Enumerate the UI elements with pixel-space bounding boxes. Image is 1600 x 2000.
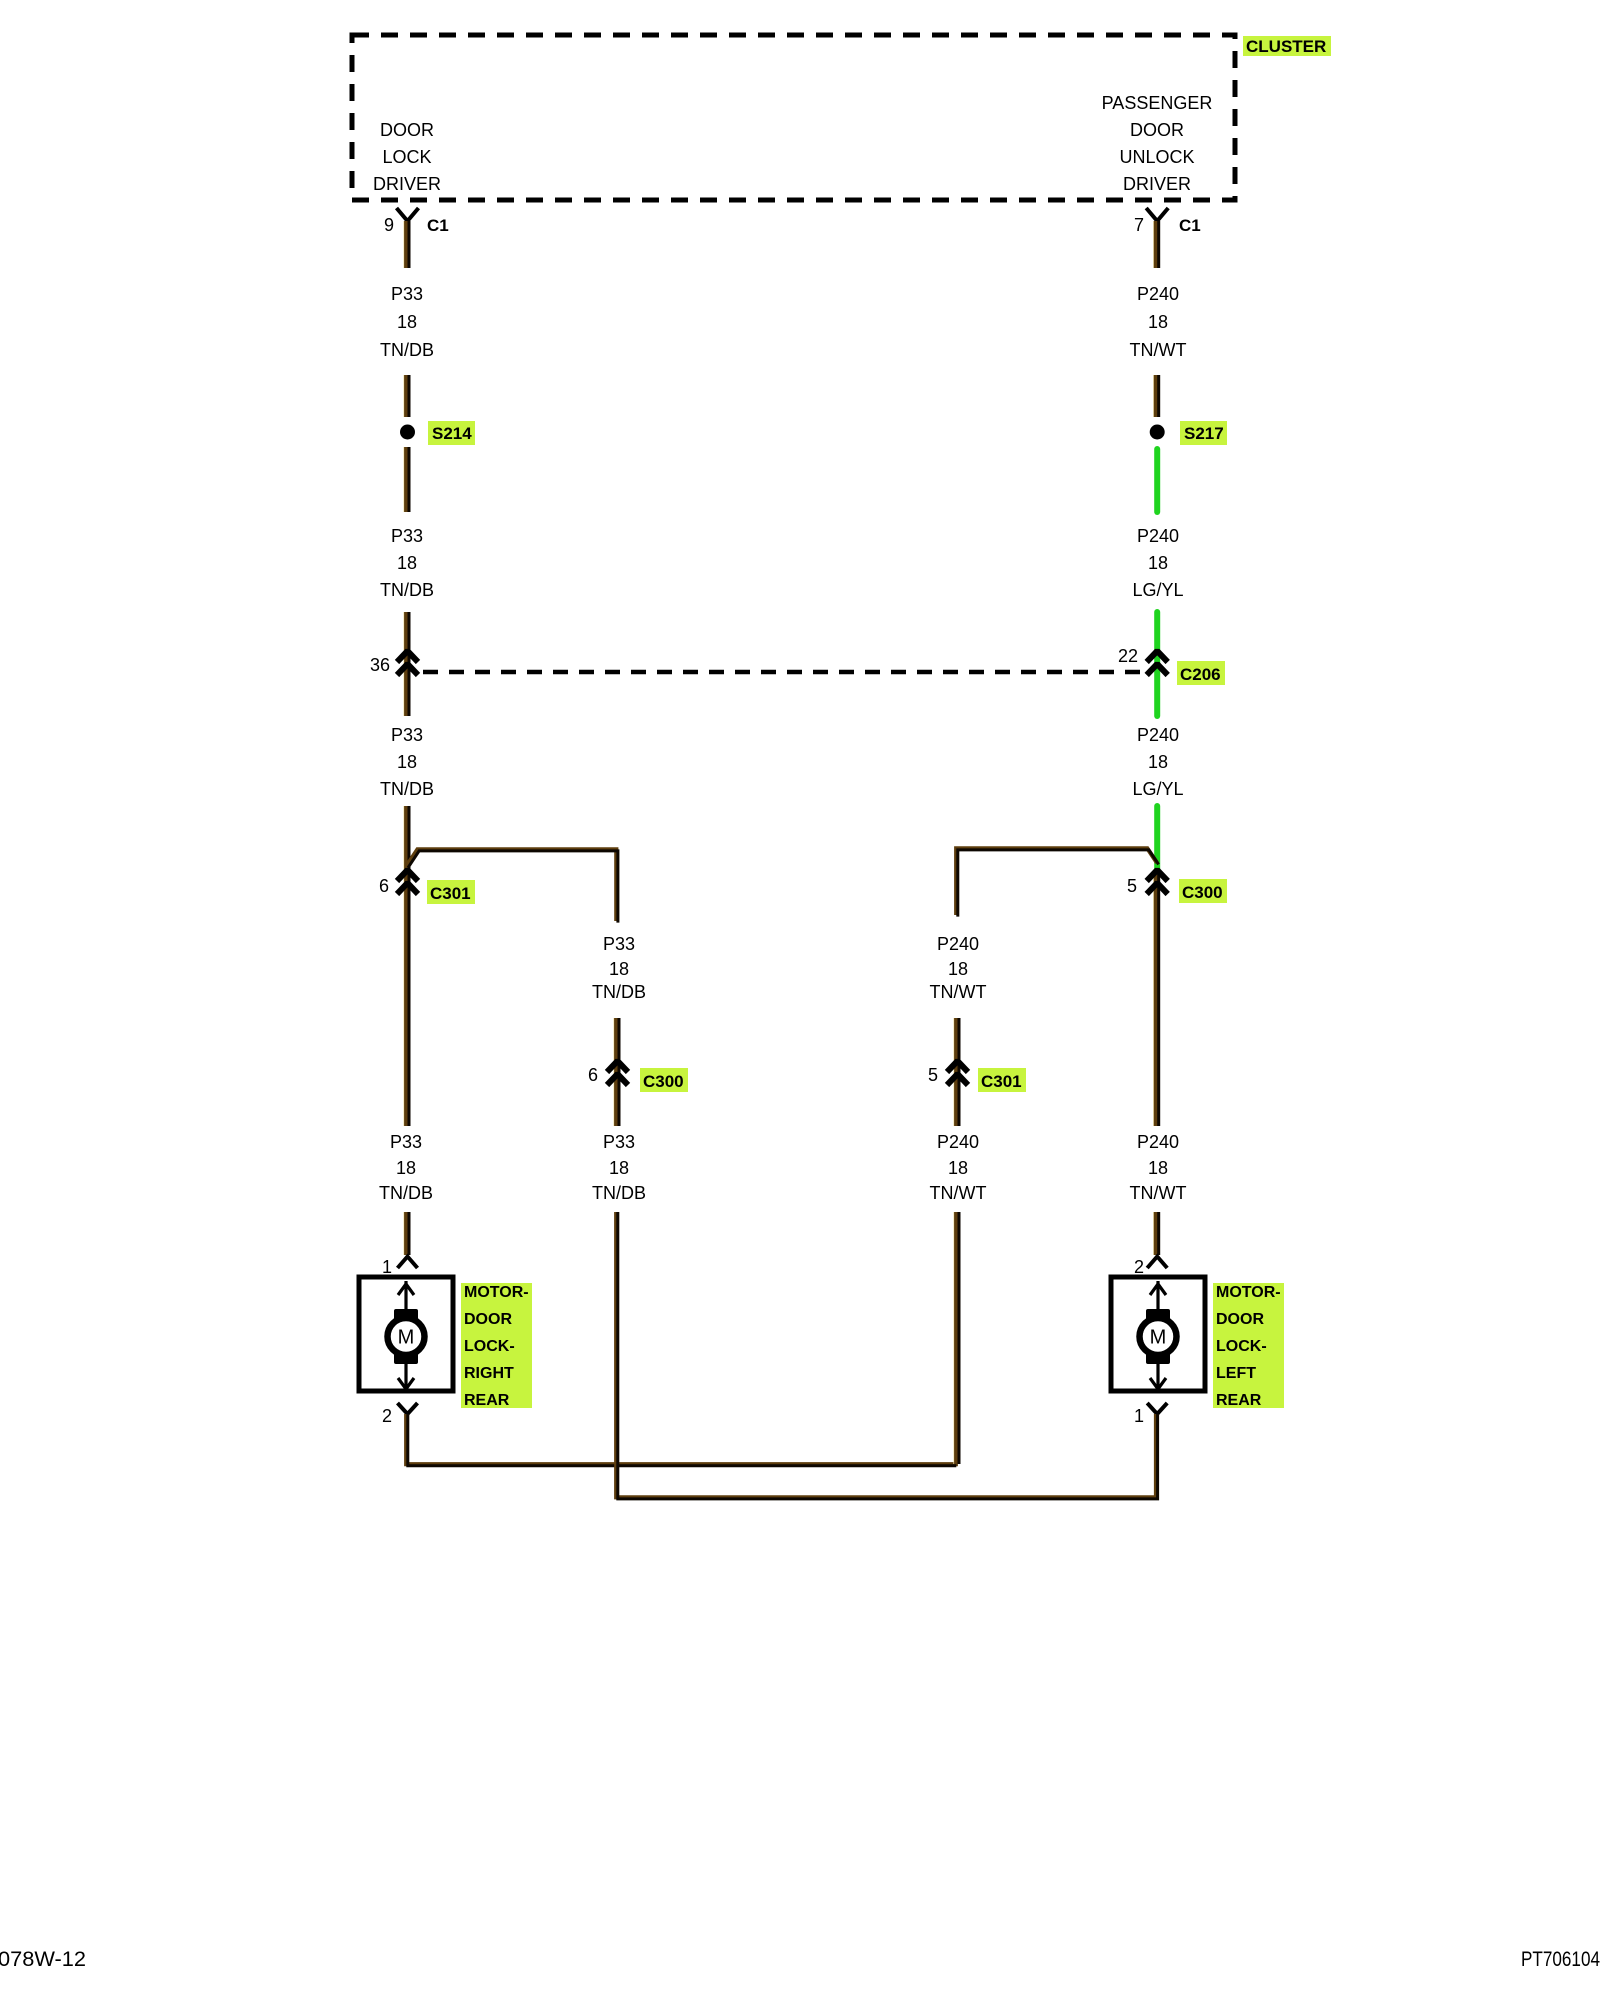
wire P33 above C206: [404, 612, 409, 716]
wire label P240 18 LG/YL: [1132, 725, 1183, 799]
wire column C down to junction: [954, 1212, 959, 1464]
svg-text:P33: P33: [391, 284, 423, 304]
wire label P33 18 TN/DB: [380, 725, 434, 799]
splice S214: [400, 421, 475, 445]
wire P240 LG/YL above C206 (green): [1154, 612, 1160, 716]
svg-text:P33: P33: [603, 934, 635, 954]
svg-text:P240: P240: [1137, 725, 1179, 745]
svg-text:UNLOCK: UNLOCK: [1119, 147, 1194, 167]
svg-text:18: 18: [609, 959, 629, 979]
svg-text:5: 5: [928, 1065, 938, 1085]
motor M2 pin 1: [1134, 1403, 1167, 1426]
svg-text:REAR: REAR: [464, 1392, 510, 1409]
motor M2 MOTOR-DOOR LOCK-LEFT REAR: [1111, 1277, 1205, 1391]
wire P240 into C301 (column C): [954, 1018, 959, 1126]
wire from motor M1 pin 2 to column C: [406, 1414, 958, 1466]
svg-text:C1: C1: [1179, 216, 1201, 235]
wire branch P33 to column B: [407, 849, 618, 922]
svg-text:18: 18: [397, 312, 417, 332]
wire P240 from C1 pin 7: [1154, 221, 1159, 268]
wire P33 below S214: [404, 447, 409, 512]
svg-text:18: 18: [397, 553, 417, 573]
svg-text:18: 18: [948, 959, 968, 979]
svg-text:P33: P33: [391, 526, 423, 546]
svg-text:PT706104: PT706104: [1521, 1948, 1600, 1971]
svg-text:LOCK: LOCK: [382, 147, 431, 167]
wire branch P240 from column C: [956, 848, 1158, 916]
svg-text:C301: C301: [430, 884, 471, 903]
svg-text:18: 18: [948, 1158, 968, 1178]
svg-text:LG/YL: LG/YL: [1132, 779, 1183, 799]
connector C1 pin 7: [1134, 208, 1201, 235]
svg-text:2: 2: [1134, 1257, 1144, 1277]
svg-text:5: 5: [1127, 876, 1137, 896]
svg-text:DOOR: DOOR: [1130, 120, 1184, 140]
svg-text:P240: P240: [1137, 1132, 1179, 1152]
svg-text:M: M: [398, 1327, 415, 1349]
wire label P33 18 TN/DB (column B): [592, 934, 646, 1002]
svg-text:LOCK-: LOCK-: [1216, 1338, 1267, 1355]
wire label P240 18 TN/WT: [1130, 284, 1187, 360]
svg-text:PASSENGER: PASSENGER: [1102, 93, 1213, 113]
svg-text:CLUSTER: CLUSTER: [1246, 37, 1326, 56]
wire label P33 18 TN/DB: [380, 526, 434, 600]
connector C300 pin 5: [1127, 870, 1227, 903]
wire P33 into C301 with branch: [404, 806, 409, 1126]
svg-text:18: 18: [1148, 553, 1168, 573]
svg-text:6: 6: [588, 1065, 598, 1085]
svg-text:DRIVER: DRIVER: [1123, 174, 1191, 194]
svg-text:M: M: [1150, 1327, 1167, 1349]
svg-text:C1: C1: [427, 216, 449, 235]
svg-text:9: 9: [384, 215, 394, 235]
connector C301 pin 5: [928, 1061, 1026, 1092]
svg-text:RIGHT: RIGHT: [464, 1365, 514, 1382]
svg-text:C300: C300: [1182, 883, 1223, 902]
svg-text:2: 2: [382, 1406, 392, 1426]
wire P240 to splice S217: [1154, 375, 1159, 417]
pin function label DOOR LOCK DRIVER: [373, 120, 441, 194]
svg-text:TN/DB: TN/DB: [380, 580, 434, 600]
svg-text:TN/DB: TN/DB: [380, 340, 434, 360]
connector C206 pin 22: [1118, 646, 1225, 685]
svg-text:6: 6: [379, 876, 389, 896]
svg-text:MOTOR-: MOTOR-: [464, 1284, 529, 1301]
wire label P240 18 LG/YL: [1132, 526, 1183, 600]
motor M1 pin 2: [382, 1403, 418, 1426]
wire label P33 18 TN/DB (column B): [592, 1132, 646, 1203]
wire P240 below C300 (long): [1154, 872, 1159, 1126]
motor M2 pin 2: [1134, 1257, 1167, 1278]
motor M1 pin 1: [382, 1257, 418, 1278]
connector C301 pin 6: [379, 870, 475, 904]
connector C1 pin 9: [384, 208, 449, 235]
wire P33 from C1 pin 9: [404, 221, 409, 268]
svg-text:S214: S214: [432, 424, 472, 443]
label MOTOR-DOOR LOCK-RIGHT REAR: [461, 1283, 532, 1409]
svg-text:18: 18: [1148, 312, 1168, 332]
svg-text:P240: P240: [937, 1132, 979, 1152]
svg-text:LOCK-: LOCK-: [464, 1338, 515, 1355]
svg-text:18: 18: [1148, 752, 1168, 772]
svg-text:LEFT: LEFT: [1216, 1365, 1256, 1382]
connector C300 pin 6: [588, 1061, 688, 1092]
svg-text:7: 7: [1134, 215, 1144, 235]
svg-text:LG/YL: LG/YL: [1132, 580, 1183, 600]
svg-text:P240: P240: [1137, 526, 1179, 546]
wire P33 to splice S214: [404, 375, 409, 417]
connector block CLUSTER dashed box: [352, 35, 1235, 200]
svg-text:078W-12: 078W-12: [0, 1948, 86, 1971]
svg-text:C301: C301: [981, 1072, 1022, 1091]
wire P240 LG/YL into C300 (green): [1154, 806, 1160, 870]
svg-text:18: 18: [609, 1158, 629, 1178]
wire column B down and right to motor M2 pin 1: [616, 1212, 1157, 1499]
svg-text:36: 36: [370, 655, 390, 675]
wire P240 LG/YL below S217 (green): [1154, 449, 1160, 512]
label CLUSTER: [1243, 36, 1331, 56]
svg-text:1: 1: [1134, 1406, 1144, 1426]
svg-text:TN/DB: TN/DB: [592, 1183, 646, 1203]
svg-text:TN/WT: TN/WT: [930, 1183, 987, 1203]
motor M1 MOTOR-DOOR LOCK-RIGHT REAR: [359, 1277, 453, 1391]
svg-text:TN/DB: TN/DB: [379, 1183, 433, 1203]
svg-text:TN/WT: TN/WT: [1130, 1183, 1187, 1203]
wire label P33 18 TN/DB: [380, 284, 434, 360]
svg-text:TN/WT: TN/WT: [930, 982, 987, 1002]
svg-text:DRIVER: DRIVER: [373, 174, 441, 194]
svg-text:DOOR: DOOR: [1216, 1311, 1264, 1328]
svg-text:DOOR: DOOR: [380, 120, 434, 140]
wire P33 into right rear motor pin 1: [404, 1212, 409, 1255]
svg-text:MOTOR-: MOTOR-: [1216, 1284, 1281, 1301]
svg-text:18: 18: [397, 752, 417, 772]
connector C206 interconnect dashed line: [423, 670, 1141, 675]
svg-text:P240: P240: [1137, 284, 1179, 304]
svg-text:REAR: REAR: [1216, 1392, 1262, 1409]
svg-text:S217: S217: [1184, 424, 1224, 443]
svg-text:22: 22: [1118, 646, 1138, 666]
svg-text:P33: P33: [603, 1132, 635, 1152]
pin function label PASSENGER DOOR UNLOCK DRIVER: [1102, 93, 1213, 194]
wire P33 into C300 (column B): [614, 1018, 619, 1126]
wire label P240 18 TN/WT (column D): [1130, 1132, 1187, 1203]
wire label P33 18 TN/DB (column A): [379, 1132, 433, 1203]
svg-text:DOOR: DOOR: [464, 1311, 512, 1328]
connector C206 pin 36: [370, 651, 418, 675]
svg-text:C300: C300: [643, 1072, 684, 1091]
svg-text:P33: P33: [391, 725, 423, 745]
wire label P240 18 TN/WT (column C): [930, 1132, 987, 1203]
svg-text:18: 18: [1148, 1158, 1168, 1178]
wire label P240 18 TN/WT (column C): [930, 934, 987, 1002]
svg-text:TN/DB: TN/DB: [380, 779, 434, 799]
svg-text:1: 1: [382, 1257, 392, 1277]
svg-text:C206: C206: [1180, 665, 1221, 684]
svg-text:18: 18: [396, 1158, 416, 1178]
splice S217: [1150, 421, 1227, 445]
label MOTOR-DOOR LOCK-LEFT REAR: [1213, 1283, 1284, 1409]
svg-text:TN/WT: TN/WT: [1130, 340, 1187, 360]
wire P240 into left rear motor pin 2: [1154, 1212, 1159, 1255]
svg-text:P240: P240: [937, 934, 979, 954]
svg-text:TN/DB: TN/DB: [592, 982, 646, 1002]
svg-text:P33: P33: [390, 1132, 422, 1152]
